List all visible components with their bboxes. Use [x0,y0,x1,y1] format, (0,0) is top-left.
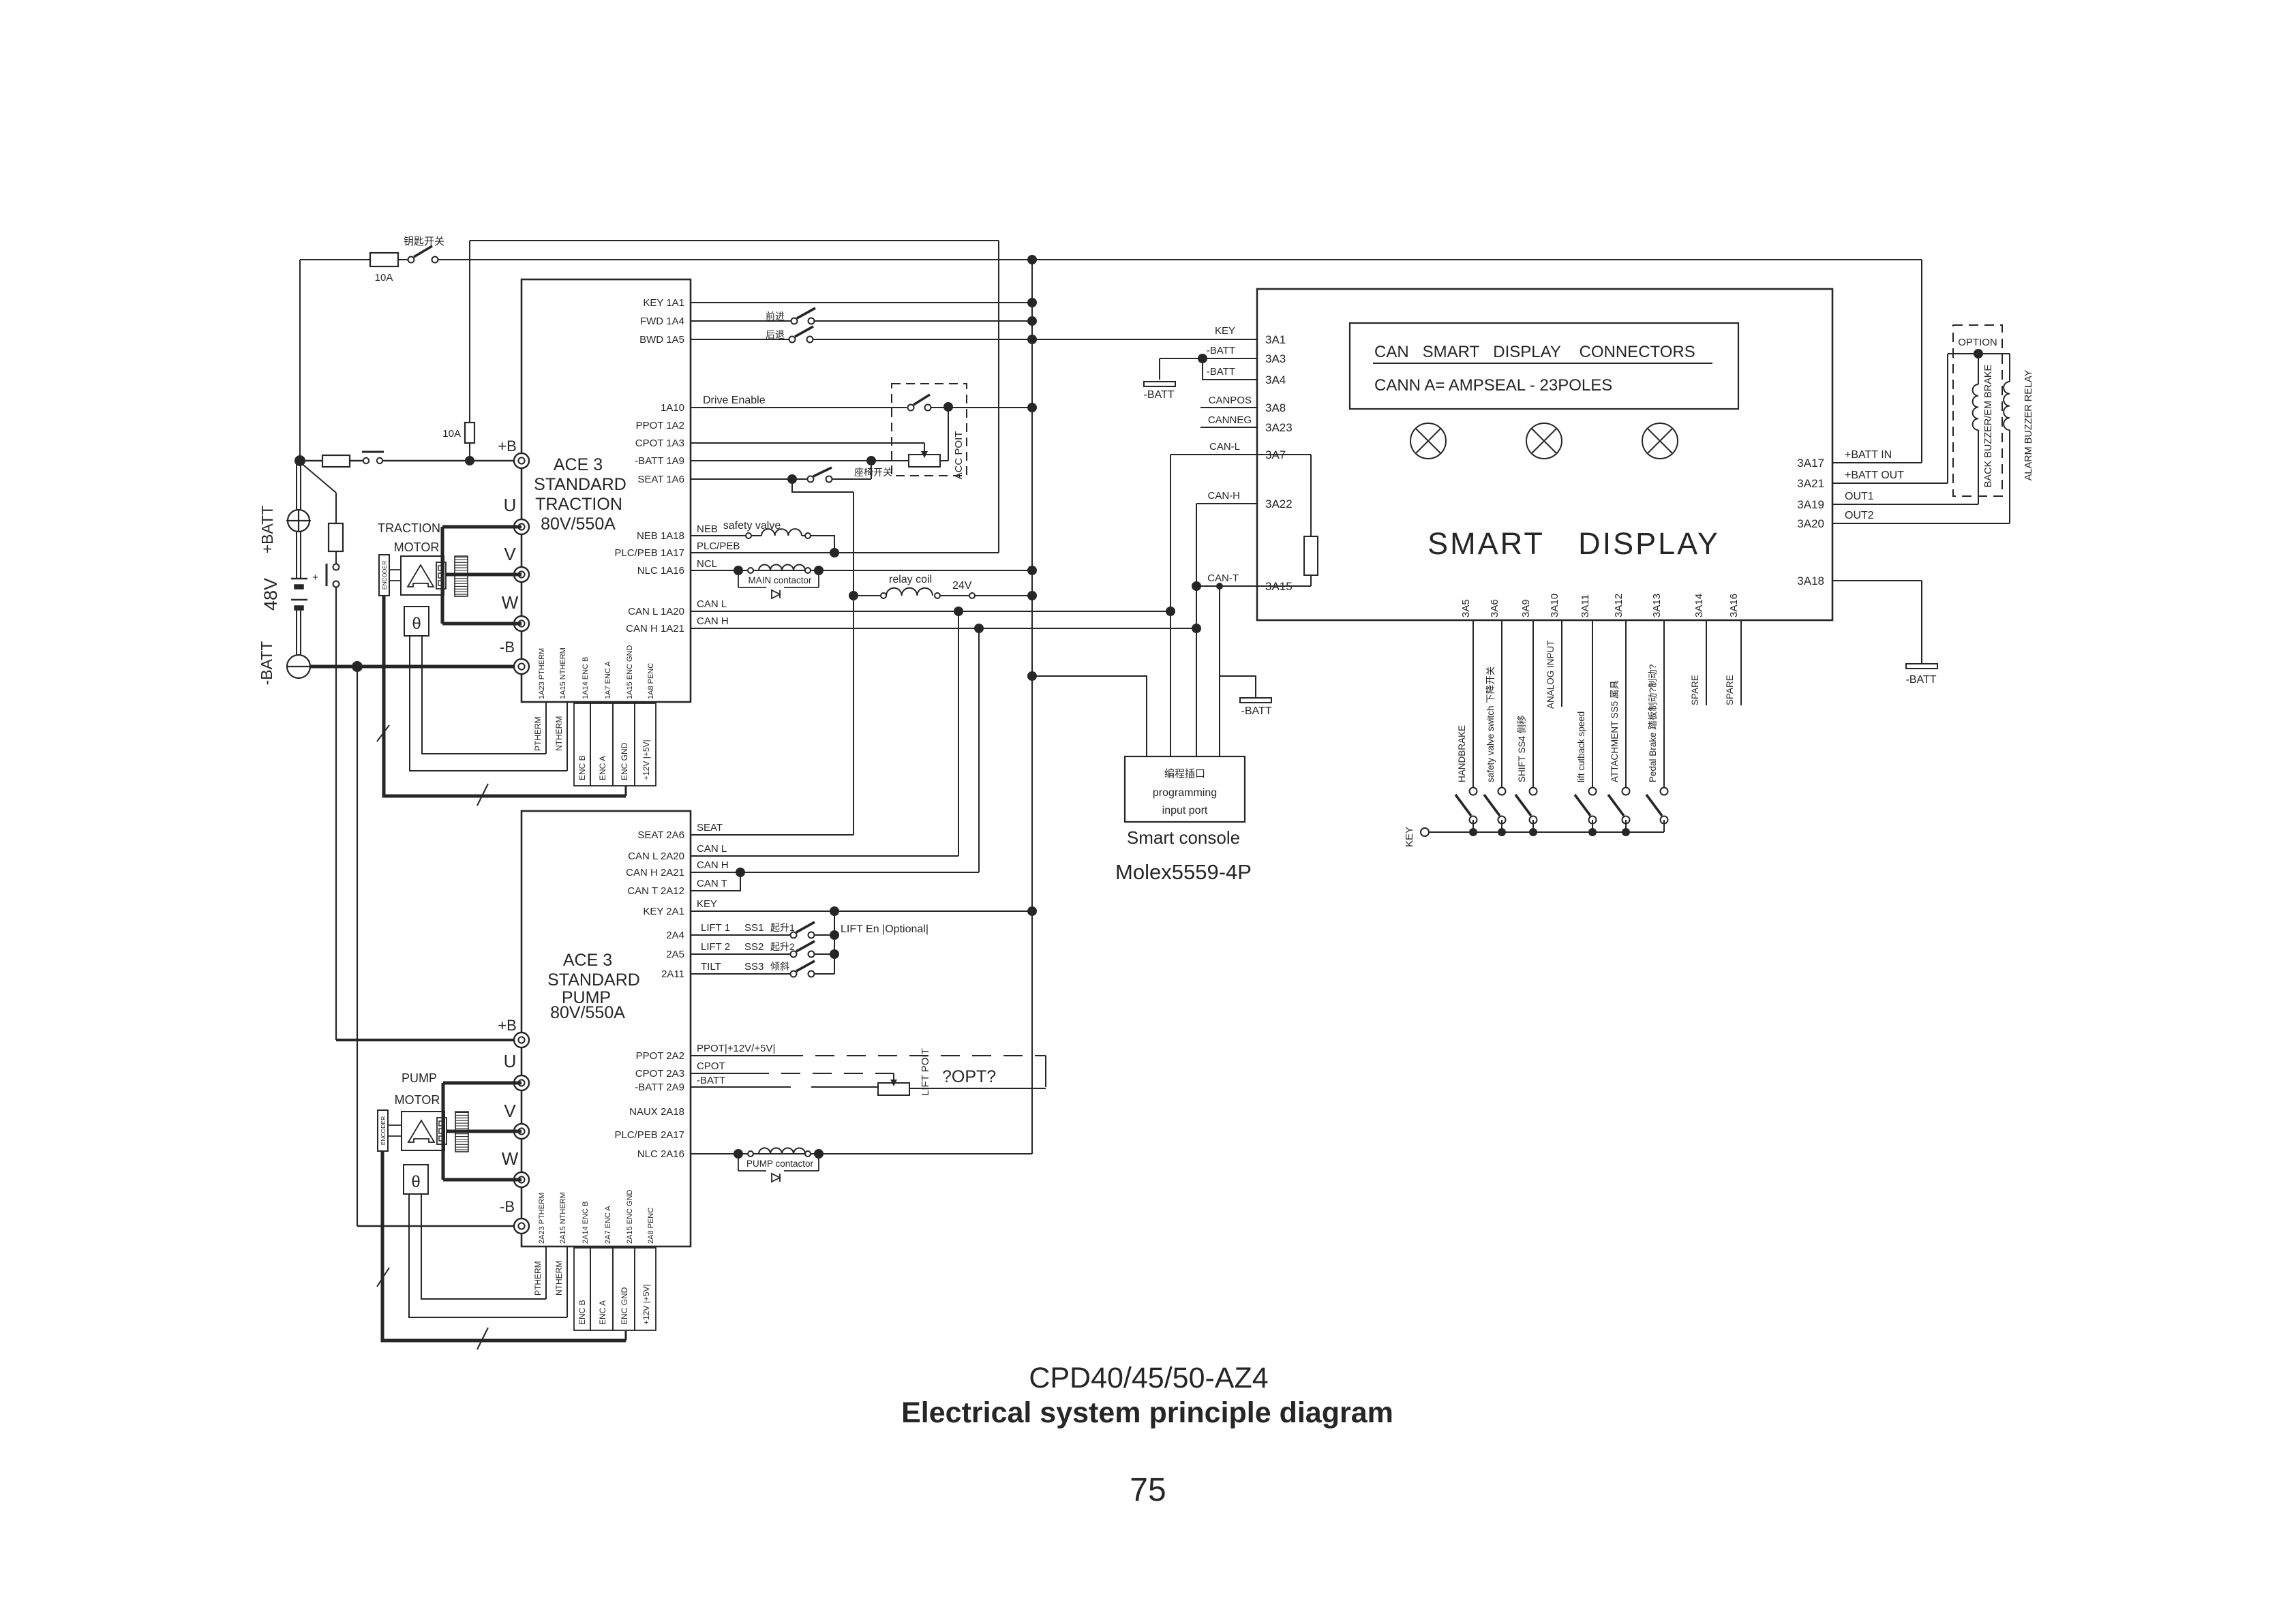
wire W phase thick [442,622,522,626]
wire display pin x=2441 [1663,620,1665,787]
wire CANNEG stub [1200,427,1257,428]
wire PTHERM pin pump [545,1246,547,1299]
wire programmer pin4 [1219,586,1220,756]
wire -BATT 2A9 [691,1086,791,1088]
wire PPOT 2A2 [691,1055,784,1056]
svg-text:LIFT En |Optional|: LIFT En |Optional| [841,923,928,935]
wire CAN H 2A21 [691,872,979,873]
svg-text:CPOT 1A3: CPOT 1A3 [635,438,684,449]
junction 3A3/3A4 [1198,354,1207,363]
encoder cable thick pump [382,1151,626,1341]
svg-text:编程插口: 编程插口 [1164,768,1205,780]
svg-text:CAN L 1A20: CAN L 1A20 [628,606,684,617]
svg-text:TRACTION: TRACTION [535,495,622,514]
wire BWD 1A5 [691,339,789,340]
terminal -B traction [514,659,529,674]
terminal W traction [514,616,529,631]
disconnect switch contact right [377,458,382,463]
wire back buzzer top [1978,354,1979,384]
svg-text:safety valve switch 下降开关: safety valve switch 下降开关 [1485,667,1496,782]
svg-text:1A7 ENC A: 1A7 ENC A [604,661,612,699]
wire PLC/PEB 1A17 [691,552,999,553]
wire relay contact gap [940,595,969,596]
junction main contactor left [734,566,743,575]
junction -BATT/seat switch [866,456,876,465]
wire LIFT2 2A5 [691,953,791,955]
svg-text:NLC 2A16: NLC 2A16 [637,1148,684,1160]
wire CAN-L 3A7 [1170,454,1311,455]
wire phase loop vertical pump [442,1083,445,1180]
fuse main (+B row) [322,455,350,467]
wire top PLC/PEB feed [470,240,999,241]
svg-text:3A18: 3A18 [1797,575,1824,587]
relay coil [886,588,933,596]
wire fuse to +B row [469,443,470,461]
svg-text:ACC POIT: ACC POIT [953,431,965,480]
junction SS1 [830,930,839,940]
wire programmer pin1 [1032,676,1147,756]
svg-text:HANDBRAKE: HANDBRAKE [1457,725,1467,782]
switch top contact [1530,788,1537,795]
SS2 contact left [791,951,797,958]
svg-text:2A7 ENC A: 2A7 ENC A [604,1206,612,1244]
svg-text:ACE 3: ACE 3 [554,455,603,474]
switch bottom contact [1498,816,1506,824]
wire 3A16 spare stub [1740,620,1742,705]
junction safety valve / PLC [830,548,839,557]
svg-text:+12V |+5V|: +12V |+5V| [641,739,651,780]
svg-text:起升2: 起升2 [770,941,795,952]
hatch block pump [455,1112,468,1152]
junction battery positive node [294,455,305,466]
svg-text:ACE 3: ACE 3 [563,951,612,970]
wire NTHERM pin pump [567,1246,568,1317]
svg-text:ANALOG INPUT: ANALOG INPUT [1545,640,1556,709]
svg-text:NCL: NCL [697,558,717,570]
traction motor box [401,556,444,595]
junction -B row / pump feed [352,661,363,672]
svg-text:TRACTION: TRACTION [378,521,440,535]
battery bus line upper a [296,461,297,579]
wire U phase thick [442,525,522,529]
svg-text:80V/550A: 80V/550A [541,515,616,534]
wire NLC 2A16 pump contactor [691,1153,1032,1154]
svg-text:input port: input port [1162,805,1208,816]
svg-text:V: V [504,544,516,564]
ground -BATT (console) [1240,698,1271,703]
wire key net to junction [438,259,1032,260]
svg-text:-BATT: -BATT [258,641,275,686]
svg-text:3A23: 3A23 [1265,421,1293,434]
wire PPOT down to pot [1045,1056,1046,1087]
wire CAN T 2A12 [691,872,740,891]
cable slash mark 1 [377,725,389,741]
wire ACC switch to junction 1514 [931,407,1032,408]
wire CAN-H 3A22 [1196,503,1257,504]
svg-text:3A16: 3A16 [1728,594,1740,617]
wire NTHERM pin [567,702,568,771]
svg-text:2A8 PENC: 2A8 PENC [647,1208,655,1244]
svg-text:SMART: SMART [1428,526,1545,561]
wire back buzzer bottom to OUT1 [1978,430,1979,504]
wire to console ground [1159,358,1160,380]
SS2 blade [796,941,815,951]
svg-text:-BATT 2A9: -BATT 2A9 [635,1082,684,1093]
wire PTHERM pin [545,702,547,754]
FWD switch contact right [809,318,815,324]
wire CAN-L vertical [1170,455,1171,611]
switch bottom contact [1530,816,1537,824]
svg-text:SEAT 2A6: SEAT 2A6 [637,829,684,841]
encoder link 1 [389,569,401,570]
relay coil terminal left [881,593,886,598]
svg-text:3A12: 3A12 [1613,594,1625,617]
svg-text:1A14 ENC B: 1A14 ENC B [581,657,590,699]
wire CAN L down to pump [958,611,959,856]
encoder cable stub up [625,786,627,796]
encoder cable stub up pump [625,1331,627,1341]
wire option top link [1948,353,2010,354]
encoder box traction [379,555,389,596]
programming input port box [1125,756,1245,822]
wire FWD 1A4 [691,320,791,322]
svg-text:CAN T 2A12: CAN T 2A12 [627,885,684,897]
svg-text:ENCODER: ENCODER [380,1116,387,1146]
junction vertical 1514 / programmer [1027,671,1037,681]
svg-text:V: V [504,1101,516,1121]
svg-text:2A5: 2A5 [666,949,684,960]
svg-text:1A15 NTHERM: 1A15 NTHERM [559,647,567,699]
fuse F2 10A (vertical) [465,423,474,443]
wire OUT2 [1832,523,2010,524]
wire -B row thick [310,665,522,669]
key switch contact right [432,257,438,263]
wire SEAT 1A6 [691,478,807,480]
svg-text:MAIN contactor: MAIN contactor [748,575,812,585]
svg-text:-BATT 1A9: -BATT 1A9 [635,455,684,467]
wire seat switch up to -BATT [871,461,872,479]
svg-text:SPARE: SPARE [1690,675,1700,705]
wire 1A10 drive enable [691,407,907,408]
encoder link 2 pump [388,1135,402,1137]
svg-text:Drive Enable: Drive Enable [703,395,766,406]
svg-text:+B: +B [498,438,517,455]
wire +B row to controller [382,460,522,462]
svg-text:MOTOR: MOTOR [395,1093,440,1107]
wire -BATT 3A3 [1160,358,1257,359]
junction switch bank [1469,828,1477,836]
svg-text:3A6: 3A6 [1489,599,1500,617]
wire display pin x=2336 [1592,620,1593,787]
motor terminal block [436,562,446,589]
wire -BATT 1A9 to pot [691,460,909,461]
svg-text:PUMP contactor: PUMP contactor [746,1159,814,1169]
wire key net to right side [1032,259,1922,260]
switch blade (pump feed) [326,564,328,586]
svg-text:-B: -B [500,639,515,656]
svg-text:FWD 1A4: FWD 1A4 [640,316,684,327]
svg-text:3A10: 3A10 [1549,594,1560,617]
wire fuse to disconnect [350,460,363,462]
wire PTHERM from theta pump [421,1194,546,1299]
main contactor coil terminal left [748,568,753,573]
svg-text:SHIFT SS4 侧移: SHIFT SS4 侧移 [1517,715,1527,782]
wire lift enable vertical [834,911,835,974]
svg-text:PLC/PEB 1A17: PLC/PEB 1A17 [614,547,684,559]
junction option feed [1974,349,1983,358]
svg-text:后退: 后退 [766,329,785,340]
ACC switch contact right [925,405,931,411]
svg-text:3A9: 3A9 [1520,599,1532,617]
pump contactor coil terminal left [748,1151,753,1157]
encoder connector columns traction [574,703,590,786]
svg-text:KEY: KEY [1404,827,1415,847]
svg-text:SEAT: SEAT [697,822,723,833]
BWD switch contact right [807,337,813,343]
junction vertical 1514 / pump KEY [1027,906,1037,916]
svg-text:3A19: 3A19 [1797,498,1824,511]
switch contact top (pump feed) [333,564,339,570]
svg-text:CAN H 2A21: CAN H 2A21 [626,867,684,878]
switch contact bottom (pump feed) [333,581,339,587]
switch bottom contact [1622,816,1630,824]
junction CAN H / pump branch [974,624,984,633]
junction relay coil / seat vertical [849,591,858,600]
junction relay / vertical 1514 [1027,591,1037,600]
svg-text:BACK BUZZER/EM BRAKE: BACK BUZZER/EM BRAKE [1983,364,1994,487]
junction KEY / lift enable [830,906,839,916]
coil BACK BUZZER/EM BRAKE [1973,384,1978,430]
svg-text:KEY: KEY [1215,325,1235,337]
svg-text:STANDARD: STANDARD [547,970,640,990]
wire FWD to junction [815,320,1032,322]
svg-text:PLC/PEB: PLC/PEB [697,540,740,552]
svg-text:10A: 10A [442,428,461,440]
terminal U pump [514,1075,529,1090]
wire seat to pump branch [792,479,854,492]
svg-text:SS3: SS3 [744,961,764,973]
svg-text:TILT: TILT [701,961,721,973]
underline connectors title [1373,363,1712,364]
indicator lamp 2 [1526,423,1562,459]
svg-text:ATTACHMENT SS5 属具: ATTACHMENT SS5 属具 [1610,680,1620,782]
theta (temp sensor) box traction [404,607,429,636]
svg-text:KEY: KEY [697,898,717,910]
svg-text:24V: 24V [952,580,972,592]
svg-text:CAN L: CAN L [697,598,727,610]
svg-text:10A: 10A [375,272,393,284]
svg-text:-BATT: -BATT [1207,366,1235,378]
cable slash mark pump 1 [377,1268,389,1287]
wire 3A18 [1832,580,1922,581]
svg-text:SS1: SS1 [744,922,764,934]
potentiometer ACC POT [909,455,940,467]
pump motor box [402,1112,444,1150]
svg-text:1A15 ENC GND: 1A15 ENC GND [626,645,634,699]
junction FWD row [1027,316,1037,326]
key switch contact left [408,257,414,263]
switch top contact [1470,788,1477,795]
resistor top leg [1310,455,1312,536]
svg-text:+BATT: +BATT [258,506,276,554]
SS3 contact left [791,971,797,977]
svg-text:MOTOR: MOTOR [394,540,440,554]
SS3 blade [796,961,815,971]
safety valve contact right [805,533,811,538]
svg-text:钥匙开关: 钥匙开关 [404,236,444,247]
junction CAN H / CAN T [736,868,745,877]
junction pump contactor right [814,1149,824,1159]
svg-text:-BATT: -BATT [1207,345,1235,356]
switch top contact [1498,788,1506,795]
BWD switch blade [795,326,813,337]
wire pot right to PPOT leg [909,1088,1046,1089]
svg-text:ENC GND: ENC GND [620,1287,629,1325]
svg-text:LIFT 1: LIFT 1 [701,922,730,934]
relay contact right [969,593,975,598]
wire CAN L 2A20 [691,855,958,857]
pump motor terminal block [437,1118,447,1144]
wire CPOT 2A3 [691,1073,750,1074]
svg-text:Electrical system principle di: Electrical system principle diagram [901,1396,1393,1429]
svg-text:48V: 48V [260,578,281,611]
svg-text:CAN H: CAN H [697,859,729,871]
svg-text:CAN-H: CAN-H [1208,490,1241,502]
svg-text:3A17: 3A17 [1797,457,1824,470]
seat switch contact right [826,476,832,483]
junction BWD row [1027,335,1037,344]
junction KEY row [1027,298,1037,307]
wire V phase pump thick [447,1130,522,1133]
switch bottom contact [1589,816,1597,824]
wire programmer pin3 (CAN H) [1196,628,1197,756]
svg-text:CAN L 2A20: CAN L 2A20 [628,851,684,862]
svg-text:2A15 NTHERM: 2A15 NTHERM [559,1192,567,1244]
junction CAN-T / CAN-H vertical [1192,581,1201,591]
svg-text:-B: -B [500,1198,515,1215]
svg-text:lift cutback speed: lift cutback speed [1576,711,1586,782]
SS1 contact right [809,932,815,938]
svg-text:ENC B: ENC B [577,1300,587,1325]
wire PLC/PEB vertical 1465 [998,241,999,553]
svg-text:3A8: 3A8 [1265,401,1286,414]
svg-text:W: W [502,1148,519,1169]
svg-text:倾斜: 倾斜 [770,961,789,972]
potentiometer LIFT POT [878,1083,909,1095]
svg-text:PTHERM: PTHERM [533,716,543,751]
arrowhead into pot [921,451,928,458]
svg-text:3A11: 3A11 [1580,594,1591,617]
ammeter / shunt symbol [288,510,309,532]
wire NLC 1A16 main contactor [691,570,1032,571]
svg-text:KEY 1A1: KEY 1A1 [643,297,684,309]
SMART DISPLAY box [1257,289,1832,620]
svg-text:relay coil: relay coil [889,574,932,585]
wire CANPOS stub [1200,407,1257,408]
svg-text:3A21: 3A21 [1797,477,1824,490]
wire CPOT dashed [750,1073,894,1074]
svg-text:CANN A= AMPSEAL - 23POLES: CANN A= AMPSEAL - 23POLES [1374,376,1612,395]
svg-text:θ: θ [412,615,421,633]
svg-text:programming: programming [1153,787,1217,799]
safety valve coil [761,529,802,536]
wire display pin x=2249 [1532,620,1534,787]
wire +BATT feed to pump [335,587,337,1040]
svg-text:2A23 PTHERM: 2A23 PTHERM [538,1193,546,1244]
svg-text:θ: θ [411,1173,420,1191]
fuse (pump + feed) [329,523,343,551]
ground -BATT (display) [1144,382,1175,386]
svg-text:3A20: 3A20 [1797,517,1824,530]
wire TILT 2A11 [691,973,791,975]
CAN termination resistor [1304,536,1318,575]
encoder link 1 pump [388,1124,402,1126]
svg-text:PLC/PEB 2A17: PLC/PEB 2A17 [614,1129,684,1141]
wire 3A10 analog input stub [1561,620,1562,707]
svg-text:OUT2: OUT2 [1845,510,1874,521]
junction main contactor right [814,566,824,575]
battery bus line lower b [300,610,301,656]
fuse F1 10A (key line) [370,253,398,266]
svg-text:PUMP: PUMP [402,1071,437,1085]
svg-text:KEY 2A1: KEY 2A1 [643,906,684,917]
svg-text:+B: +B [498,1017,517,1034]
wire display pin x=2161 [1472,620,1474,787]
seat switch blade [813,468,832,476]
junction pump contactor left [734,1149,743,1159]
switch bottom contact [1470,816,1477,824]
PUMP contactor bracket and label [738,1158,739,1171]
wire fuse to switch [335,551,337,564]
svg-text:CAN H 1A21: CAN H 1A21 [626,623,684,634]
PUMP contactor coil [759,1148,805,1154]
FWD switch blade [797,308,815,318]
wire diagonal +B branch [300,462,336,493]
wire alarm relay bottom to OUT2 [2009,430,2010,523]
terminal -B pump [514,1219,529,1234]
wire U phase pump thick [443,1082,522,1085]
terminal +B pump [514,1032,529,1047]
svg-text:3A1: 3A1 [1265,333,1286,346]
wire ACC pot right leg [948,407,949,461]
coil ALARM BUZZER RELAY [2004,382,2010,430]
svg-text:ENC A: ENC A [598,756,607,780]
junction switch bank [1622,828,1630,836]
svg-text:CPOT: CPOT [697,1060,725,1072]
terminal V pump [514,1124,529,1139]
junction SS2 [830,949,839,959]
wire +BATT OUT [1832,483,1948,484]
junction CAN L / pump branch [954,607,963,616]
relay coil terminal mid [935,593,940,598]
wire down to 10A fuse [469,241,470,423]
wire +BATT OUT up leg [1947,354,1948,483]
wire +B branch down [335,493,337,524]
svg-text:LIFT 2: LIFT 2 [701,941,730,953]
wire CPOT 1A3 [691,442,924,444]
FWD switch contact left [791,318,798,324]
svg-text:+12V |+5V|: +12V |+5V| [641,1284,651,1325]
svg-text:-BATT: -BATT [1905,674,1936,686]
svg-text:-BATT: -BATT [1241,705,1271,717]
diode main contactor [772,590,780,598]
svg-text:Molex5559-4P: Molex5559-4P [1115,860,1252,884]
pump motor winding triangle [408,1120,434,1142]
svg-text:80V/550A: 80V/550A [550,1003,625,1022]
svg-text:STANDARD: STANDARD [534,475,626,494]
switch blade [1575,795,1590,816]
svg-text:CANPOS: CANPOS [1209,395,1252,406]
